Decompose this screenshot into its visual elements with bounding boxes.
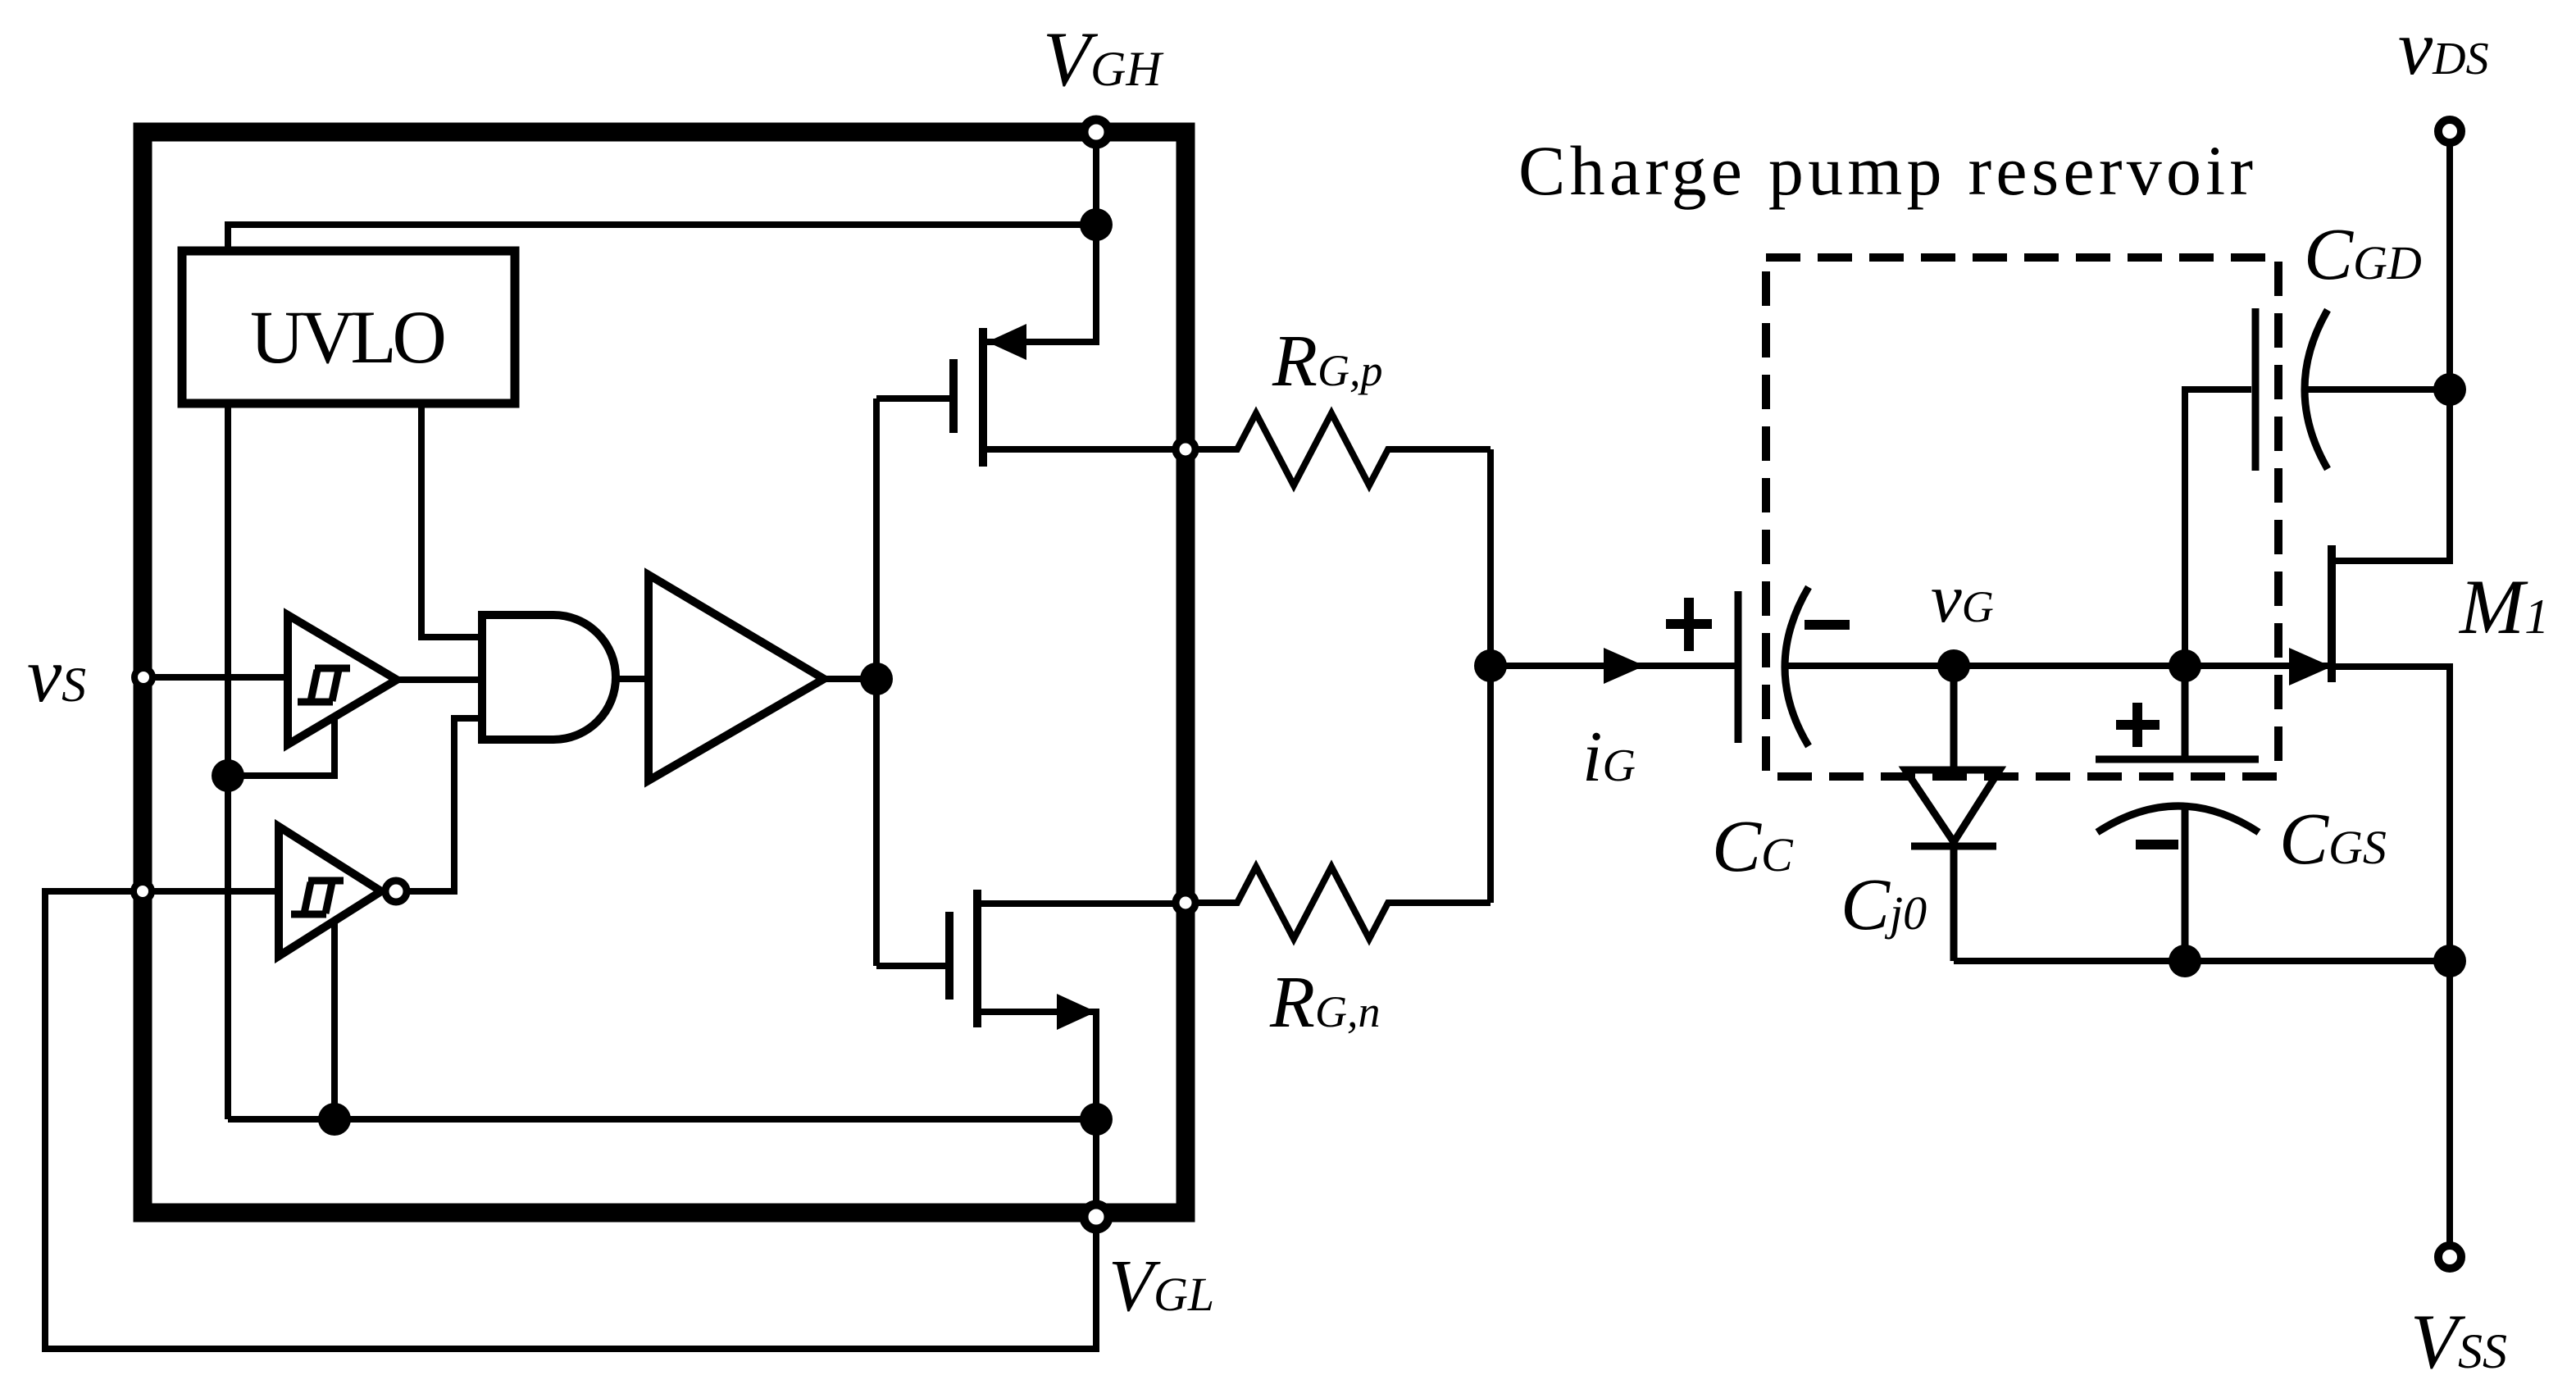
terminal vDS pin [2438,120,2461,143]
plus sign CC [1666,598,1712,651]
minus sign CC [1805,620,1850,630]
node vG diode tap [1937,649,1970,682]
wire gate drive vertical [873,398,880,966]
arrow iG current arrow [1604,648,1645,684]
wire U1 hysteresis tap [228,715,335,776]
svg-text:Charge pump reservoir: Charge pump reservoir [1518,131,2253,210]
minus sign CGS [2136,840,2178,849]
node iG junction [1474,649,1507,682]
node VGH rail junction [1080,208,1113,241]
wire CC to vG [1786,663,2332,669]
transistor M1 [2328,545,2336,682]
schmitt buffer U1 [288,615,397,745]
terminal RGn pin [1176,893,1195,913]
wire Q2 drain to RGn pin [977,900,1186,907]
wire UVLO right output down to AND input [421,403,482,637]
terminal vS pin [134,668,152,686]
dashed box charge pump reservoir [1766,257,2278,776]
transistor Q1 PMOS [953,328,983,467]
wire vS input [143,674,288,681]
wire VGL feedback loop [45,891,1096,1349]
terminal VGH pin [1084,120,1108,144]
terminal left VGL-sense pin [134,882,152,900]
wire M1 source [2332,667,2450,961]
node vDS junction [2433,373,2466,406]
hysteresis glyph U1 [298,668,350,702]
wire PMOS gate [876,395,949,402]
svg-text:UVLO: UVLO [250,295,447,379]
wire Q2 source down to VGL rail [977,1012,1096,1213]
wire vG up to CGD [2185,389,2251,666]
terminal VSS pin [2438,1246,2461,1268]
node VGL rail tap U2 [318,1103,351,1136]
wire Q1 drain from VGH [987,225,1096,342]
wire vDS down [2446,143,2453,389]
bubble U2 output [385,881,407,902]
arrow Q1 source-arrow pointing into channel [987,324,1026,360]
terminal RGp pin [1176,439,1195,459]
wire iG to CC [1491,663,1735,669]
node CGS bottom [2169,945,2201,977]
UVLO block [182,251,515,403]
arrow M1 gate arrow [2289,648,2332,685]
wire U2 hysteresis tap [331,921,338,1119]
wire NMOS gate [876,963,945,969]
buffer amplifier U4 [649,575,824,781]
resistor RGn [1196,867,1491,939]
capacitor CC [1738,587,1809,746]
hysteresis glyph U2 [291,881,344,914]
node feedback junction on VGL line [212,759,244,792]
resistor RGp [1196,413,1491,485]
node buffer output junction [860,663,893,695]
node vG CGS tap [2169,649,2201,682]
wire source rail [1954,958,2450,964]
gate driver IC thick box [143,132,1186,1213]
node M1 source rail [2433,945,2466,977]
wire U1 output to AND [397,676,482,683]
wire UVLO left output down to VGL rail [225,403,231,1119]
wire VGL rail horizontal [228,1116,1096,1123]
wire VSS stem [2446,961,2453,1246]
wire resistor join vertical [1487,449,1494,903]
wire VGH pin stem [1093,132,1099,225]
node VGL rail and Q2 source [1080,1103,1113,1136]
wire U2 output to AND [407,718,482,891]
diode Cj0 [1905,666,2000,961]
wire buffer output [824,676,876,682]
arrow Q2 source arrow [1057,994,1096,1030]
AND gate U3 [482,615,616,740]
terminal VGL pin [1084,1205,1108,1229]
capacitor CGS [2096,666,2259,961]
wire AND output [616,676,649,682]
wire Q1 source to RGp pin [983,446,1186,453]
wire M1 drain [2332,389,2450,561]
wire UVLO top to VGH rail [228,225,1096,251]
wire CGD to vDS node [2305,386,2450,393]
schmitt inverter U2 [279,827,381,956]
plus sign CGS [2116,703,2160,747]
transistor Q2 NMOS [949,890,977,1027]
wire U2 input from VGL pin [143,888,279,895]
capacitor CGD [2255,308,2328,471]
